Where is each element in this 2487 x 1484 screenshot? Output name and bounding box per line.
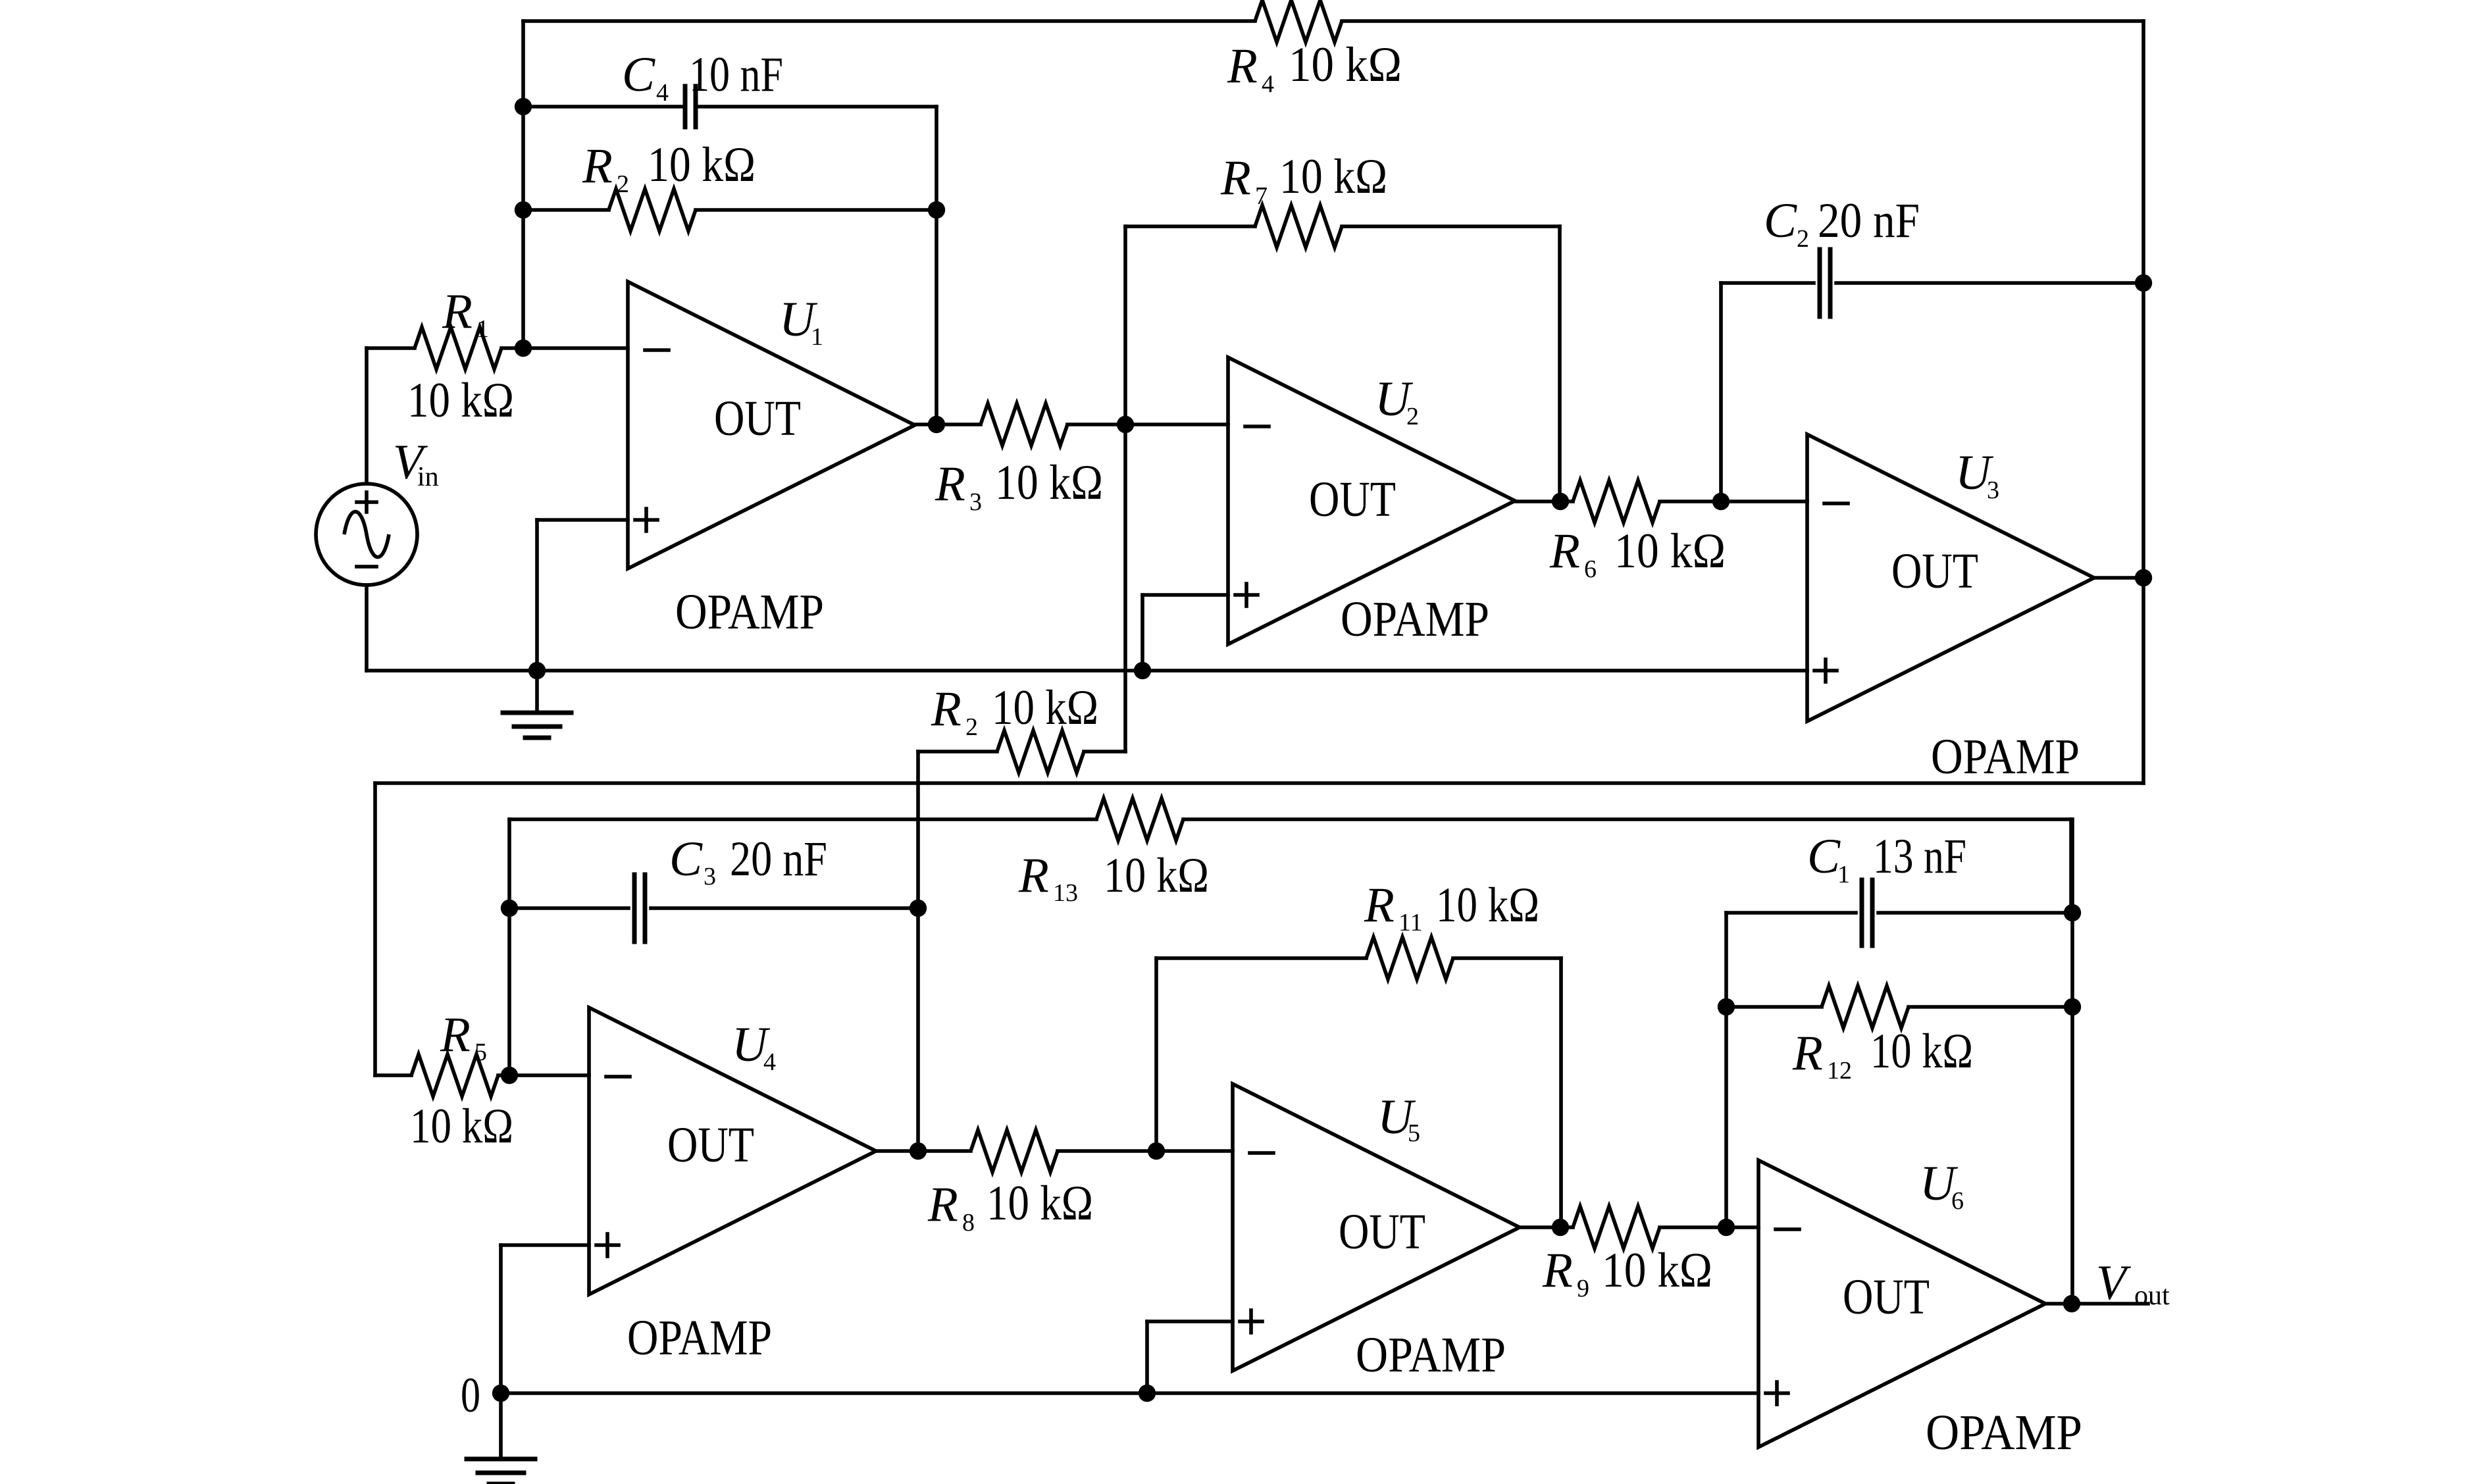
wire C1 branch	[1726, 913, 2072, 1227]
svg-text:1: 1	[811, 323, 823, 351]
U2 OPAMP label	[1341, 592, 1489, 647]
svg-text:5: 5	[1408, 1119, 1420, 1147]
wire left vertical x=795	[521, 21, 525, 348]
resistor R6	[1573, 480, 1660, 523]
U1 OUT label	[714, 391, 801, 446]
wire R5 input	[375, 1073, 589, 1077]
U2 designator label	[1375, 372, 1419, 430]
svg-text:R: R	[935, 457, 965, 511]
svg-text:OPAMP: OPAMP	[1356, 1327, 1506, 1383]
Vin label	[393, 435, 439, 492]
U3 OPAMP label	[1931, 729, 2080, 784]
svg-text:2: 2	[1406, 403, 1419, 430]
resistor R5	[411, 1054, 498, 1096]
wire vertical x=1710	[1123, 226, 1127, 752]
wire R12 branch	[1726, 1005, 2072, 1009]
wire C2 branch	[1721, 283, 2143, 501]
wire C3 branch	[509, 906, 918, 910]
wire R2 branch horizontal	[523, 208, 936, 212]
svg-text:5: 5	[474, 1038, 487, 1066]
op-amp U5	[1233, 1084, 1520, 1371]
op-amp U3	[1807, 434, 2094, 721]
svg-text:out: out	[2134, 1281, 2170, 1311]
svg-text:10 kΩ: 10 kΩ	[1279, 149, 1387, 204]
resistor R9	[1573, 1206, 1660, 1248]
svg-text:C: C	[1807, 829, 1841, 884]
resistor R3	[981, 403, 1067, 446]
wire ground bus (upper)	[367, 669, 1807, 673]
svg-text:12: 12	[1827, 1057, 1852, 1085]
resistor R1	[415, 327, 501, 369]
wire U3 output	[2094, 576, 2143, 580]
node 0 label	[461, 1368, 480, 1423]
svg-text:8: 8	[962, 1209, 975, 1237]
svg-text:C: C	[622, 47, 655, 102]
svg-text:R: R	[927, 1177, 958, 1232]
wire Vout	[2045, 1302, 2148, 1306]
resistor R12 label	[1792, 1024, 1973, 1085]
resistor R2 label	[582, 138, 756, 198]
node dot bus x=816	[528, 662, 546, 679]
resistor R8 label	[927, 1176, 1093, 1237]
svg-text:4: 4	[656, 79, 669, 107]
svg-text:4: 4	[763, 1048, 776, 1076]
svg-text:3: 3	[704, 863, 716, 890]
node dots on R6 wire	[1552, 493, 1730, 510]
svg-text:10 kΩ: 10 kΩ	[407, 373, 514, 428]
capacitor C1 label	[1807, 829, 1966, 888]
svg-text:R: R	[440, 1008, 471, 1062]
capacitor C2 label	[1764, 193, 1920, 253]
node dot Vout	[2063, 1295, 2080, 1312]
U4 OPAMP label	[627, 1310, 772, 1366]
wire ground bus (lower)	[501, 1391, 1758, 1395]
U4 designator label	[732, 1017, 776, 1076]
wire long feedback y=1190	[375, 783, 2143, 1075]
node dots R9 wire	[1552, 1219, 1735, 1236]
node dots R12/C1	[1718, 904, 2081, 1015]
svg-text:R: R	[1549, 524, 1580, 578]
U2 OUT label	[1309, 472, 1396, 527]
wire top feedback net	[523, 19, 2143, 23]
svg-text:2: 2	[1797, 225, 1809, 253]
U6 designator label	[1920, 1156, 1964, 1215]
wire vertical x=774	[507, 819, 511, 1075]
capacitor C1	[1862, 880, 1872, 946]
node dots C3	[501, 900, 927, 917]
resistor R8	[971, 1130, 1058, 1172]
resistor R11 label	[1364, 878, 1539, 936]
op-amp U1	[628, 282, 915, 569]
wire vertical x=1395	[916, 752, 920, 1151]
op-amp U4	[589, 1008, 876, 1294]
resistor R5 value label	[410, 1099, 513, 1154]
svg-text:10 kΩ: 10 kΩ	[992, 680, 1098, 735]
resistor R7 label	[1220, 149, 1387, 210]
svg-text:10 kΩ: 10 kΩ	[1289, 38, 1402, 92]
capacitor C4	[685, 86, 696, 127]
svg-text:20 nF: 20 nF	[1818, 193, 1920, 248]
svg-text:OUT: OUT	[1339, 1204, 1425, 1260]
capacitor C4 label	[622, 47, 783, 107]
capacitor C3 label	[669, 832, 827, 890]
svg-text:6: 6	[1951, 1187, 1964, 1215]
wire U1 plus input to ground bus	[537, 520, 628, 671]
svg-text:10 kΩ: 10 kΩ	[987, 1176, 1093, 1231]
svg-text:OUT: OUT	[1891, 544, 1978, 599]
svg-text:OUT: OUT	[714, 391, 801, 446]
resistor R3 label	[935, 455, 1103, 516]
svg-text:R: R	[1792, 1026, 1823, 1081]
svg-text:10 kΩ: 10 kΩ	[1602, 1243, 1712, 1298]
Vout label	[2096, 1256, 2170, 1311]
node dot 0 net	[492, 1385, 509, 1402]
svg-text:10 kΩ: 10 kΩ	[1614, 524, 1726, 578]
svg-text:R: R	[442, 284, 473, 339]
wire U4 plus input to lower bus	[501, 1245, 589, 1393]
capacitor C2	[1820, 249, 1830, 317]
ground symbol (lower)	[467, 1393, 535, 1484]
svg-text:7: 7	[1255, 182, 1268, 210]
node dot bus x=1736	[1134, 662, 1151, 679]
U6 OUT label	[1843, 1269, 1930, 1325]
svg-text:3: 3	[1987, 476, 1999, 504]
svg-text:10 kΩ: 10 kΩ	[1104, 848, 1209, 903]
svg-text:10 kΩ: 10 kΩ	[648, 138, 756, 192]
U6 OPAMP label	[1926, 1405, 2082, 1460]
svg-text:C: C	[1764, 193, 1797, 248]
svg-text:in: in	[417, 462, 439, 492]
svg-text:OPAMP: OPAMP	[1931, 729, 2080, 784]
svg-text:OUT: OUT	[1309, 472, 1396, 527]
svg-text:10 kΩ: 10 kΩ	[410, 1099, 513, 1154]
wire vertical x=3149	[2070, 819, 2074, 1304]
U5 OUT label	[1339, 1204, 1425, 1260]
svg-text:R: R	[582, 139, 613, 193]
svg-text:OPAMP: OPAMP	[1341, 592, 1489, 647]
resistor R13	[1096, 798, 1183, 840]
wire R8 from U4 output to U5 minus	[876, 1149, 1233, 1153]
svg-text:OPAMP: OPAMP	[627, 1310, 772, 1366]
svg-text:OPAMP: OPAMP	[675, 584, 824, 640]
wire right vertical x=1423	[935, 107, 938, 424]
svg-text:R: R	[1220, 151, 1251, 205]
node dots on x=1423 vertical	[928, 201, 945, 433]
resistor R7	[1255, 205, 1342, 247]
node dot C2 right	[2135, 274, 2152, 292]
resistor R9 label	[1542, 1243, 1712, 1302]
svg-text:13: 13	[1053, 879, 1078, 907]
svg-text:20 nF: 20 nF	[730, 832, 827, 886]
resistor R5 label	[440, 1008, 487, 1066]
resistor R2 (state feedback)	[997, 730, 1084, 773]
wire right vertical x=3257	[2141, 21, 2145, 783]
svg-text:10 kΩ: 10 kΩ	[995, 455, 1103, 510]
svg-text:10 kΩ: 10 kΩ	[1436, 878, 1539, 933]
node dot U3 output	[2135, 569, 2152, 586]
svg-text:1: 1	[1837, 861, 1850, 888]
svg-text:R: R	[1018, 848, 1049, 903]
wire R7 right vertical	[1558, 226, 1562, 501]
svg-text:10 kΩ: 10 kΩ	[1870, 1024, 1973, 1079]
wire C4 branch horizontal	[523, 105, 936, 109]
U1 OPAMP label	[675, 584, 824, 640]
resistor R2 state feedback label	[931, 680, 1098, 741]
voltage source Vin	[316, 348, 417, 671]
node dot bus x=1743	[1139, 1385, 1156, 1402]
U4 OUT label	[667, 1117, 754, 1173]
op-amp U2	[1228, 357, 1515, 644]
capacitor C3	[634, 875, 645, 942]
wire R6 from U2 output to U3 minus	[1515, 499, 1807, 503]
svg-text:0: 0	[461, 1368, 480, 1423]
svg-text:11: 11	[1398, 909, 1423, 936]
svg-text:9: 9	[1577, 1275, 1589, 1302]
svg-text:R: R	[1364, 878, 1395, 933]
wire U2 plus input jog	[1142, 595, 1228, 671]
node dots R8 wire	[910, 1142, 1165, 1160]
U5 designator label	[1377, 1090, 1420, 1147]
svg-text:OUT: OUT	[1843, 1269, 1930, 1325]
wire R11 right vertical	[1559, 958, 1563, 1227]
svg-text:3: 3	[969, 488, 982, 516]
U1 designator label	[779, 292, 823, 351]
wire R13 feedback y=1245	[509, 819, 2071, 913]
resistor R1 label	[442, 284, 489, 343]
resistor R2 (U1 feedback)	[609, 189, 696, 231]
resistor R6 label	[1549, 524, 1726, 583]
U3 designator label	[1955, 446, 1999, 504]
svg-text:13 nF: 13 nF	[1873, 829, 1966, 884]
svg-text:10 nF: 10 nF	[689, 47, 783, 102]
resistor R4	[1255, 0, 1342, 42]
wire R11 left vertical	[1154, 958, 1158, 1151]
U3 OUT label	[1891, 544, 1978, 599]
wire R1 input	[367, 346, 628, 350]
node dot U2 minus node	[1117, 416, 1134, 433]
svg-text:1: 1	[476, 315, 489, 343]
node dot U4 minus node	[501, 1067, 518, 1084]
svg-text:R: R	[1542, 1243, 1573, 1298]
resistor R11	[1366, 937, 1453, 979]
resistor R1 value label	[407, 373, 514, 428]
wire lower R2 branch	[918, 750, 1125, 754]
svg-text:4: 4	[1262, 70, 1274, 98]
wire R9 from U5 output to U6 minus	[1520, 1225, 1758, 1229]
svg-text:6: 6	[1584, 555, 1597, 583]
svg-text:OPAMP: OPAMP	[1926, 1405, 2082, 1460]
resistor R12	[1822, 986, 1909, 1028]
svg-text:OUT: OUT	[667, 1117, 754, 1173]
svg-text:R: R	[1227, 39, 1258, 93]
svg-text:C: C	[669, 832, 703, 886]
node dots on x=795 vertical	[515, 98, 532, 357]
ground symbol (upper)	[503, 671, 571, 738]
wire R11 feedback	[1156, 956, 1561, 960]
resistor R13 label	[1018, 848, 1209, 907]
op-amp U6	[1758, 1160, 2045, 1447]
svg-text:R: R	[931, 682, 961, 736]
svg-text:2: 2	[965, 713, 978, 741]
resistor R4 label	[1227, 38, 1402, 98]
wire R7 feedback horizontal	[1125, 224, 1560, 228]
svg-text:2: 2	[617, 170, 629, 198]
U5 OPAMP label	[1356, 1327, 1506, 1383]
wire U5 plus input jog	[1147, 1321, 1233, 1393]
wire R3 from U1 output to U2 minus	[915, 422, 1228, 426]
